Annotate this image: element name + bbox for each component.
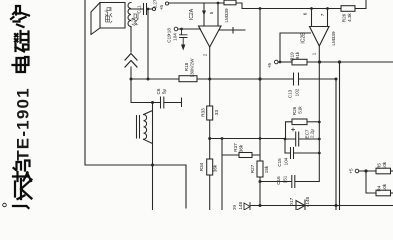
- svg-text:1: 1: [312, 52, 317, 55]
- op-amp IC2A: [199, 26, 222, 47]
- double vertical line left: [335, 79, 337, 210]
- wire +5 to R5: [359, 170, 376, 172]
- resistor R19: [292, 59, 307, 65]
- capacitor C6 5u: [161, 97, 182, 108]
- long vertical wire center: [152, 103, 154, 211]
- transformer winding: [144, 115, 147, 140]
- diode D9 (cut at edge): [244, 203, 250, 211]
- svg-text:36k: 36k: [239, 144, 244, 152]
- L2 wire to right edge: [307, 61, 393, 63]
- wire node row Y138: [210, 138, 285, 140]
- long vertical wire X260: [259, 9, 261, 162]
- op-amp IC2B: [310, 27, 330, 47]
- wire R37 leads: [222, 154, 260, 156]
- svg-text:10k: 10k: [382, 183, 387, 191]
- svg-text:R19: R19: [290, 52, 295, 61]
- terminal +18: [174, 27, 178, 31]
- svg-text:2.2μ: 2.2μ: [310, 129, 315, 138]
- wire row Y181 with C16: [260, 181, 319, 183]
- svg-text:+5: +5: [349, 168, 354, 174]
- svg-text:33: 33: [214, 110, 219, 116]
- svg-text:4148: 4148: [305, 196, 310, 207]
- svg-text:C16: C16: [276, 176, 281, 185]
- svg-text:4.3k: 4.3k: [347, 12, 352, 21]
- svg-text:5μ: 5μ: [162, 89, 167, 95]
- wire C11 branch vertical: [147, 9, 149, 79]
- svg-text:6: 6: [303, 12, 308, 15]
- resistor R25 4.3k: [341, 6, 355, 12]
- resistor R34: [207, 159, 213, 175]
- svg-text:4148: 4148: [238, 201, 243, 210]
- chevron break symbol: [125, 54, 137, 68]
- wire IC2A input right: [219, 28, 245, 34]
- wire node row Y139 to EC7: [285, 138, 319, 140]
- wire IC2A output to rail: [209, 47, 211, 79]
- wire chevron down to C6 corner: [131, 67, 160, 103]
- svg-text:R4: R4: [377, 185, 382, 191]
- pot 锅具: [91, 3, 125, 35]
- svg-text:R5: R5: [377, 163, 382, 169]
- label 线盘: [132, 13, 138, 26]
- svg-text:R37: R37: [233, 143, 238, 152]
- wire R34 to bottom: [209, 175, 211, 210]
- svg-text:R34: R34: [199, 162, 204, 171]
- capacitor EC7 2.2u: [296, 132, 299, 146]
- wire R27 to bottom rail: [259, 177, 261, 206]
- resistor R4: [376, 190, 391, 196]
- diode D17: [296, 200, 305, 211]
- pin4 wire with arrow: [203, 3, 205, 26]
- svg-text:C15: C15: [277, 158, 282, 167]
- svg-text:R26: R26: [342, 13, 347, 22]
- border frame line: [85, 0, 186, 208]
- char 天: [15, 179, 32, 199]
- small mark bottom-left corner: [3, 203, 7, 207]
- wire R34 branch: [209, 139, 211, 160]
- resistor R5: [376, 168, 391, 174]
- L2 wire +5 to R19: [278, 61, 292, 63]
- svg-text:5: 5: [209, 11, 214, 14]
- svg-text:51k: 51k: [298, 106, 303, 114]
- svg-text:C6: C6: [156, 88, 161, 94]
- svg-text:R33: R33: [201, 108, 206, 117]
- capacitor C13 102: [294, 73, 336, 85]
- svg-text:TE-1901: TE-1901: [14, 87, 33, 161]
- svg-text:91k: 91k: [295, 51, 300, 59]
- wire R26 left lead down: [286, 122, 293, 139]
- terminal circle for C11: [152, 7, 155, 10]
- label 锅具: [105, 8, 112, 24]
- resistor R33: [207, 106, 213, 120]
- terminal +5 bottom right: [355, 169, 359, 173]
- transformer leads: [144, 111, 153, 144]
- capacitor C19 104: [180, 29, 188, 45]
- node dot on frame line: [151, 164, 154, 167]
- top rail wire: [169, 3, 341, 9]
- transformer core: [137, 116, 140, 139]
- wire +18 to IC2A: [178, 28, 201, 30]
- svg-text:LM339: LM339: [224, 8, 229, 22]
- svg-text:7: 7: [320, 13, 325, 16]
- svg-text:R26: R26: [292, 106, 297, 115]
- node dot C11 line: [147, 78, 150, 81]
- node dot rail-chevron: [130, 78, 133, 81]
- capacitor C16 151: [292, 176, 295, 188]
- wire coil to chevron: [130, 27, 132, 53]
- double vertical line right: [339, 62, 341, 210]
- char 小 (partially cut): [13, 196, 29, 217]
- svg-text:36k: 36k: [213, 164, 218, 172]
- pin5 wire: [217, 3, 219, 26]
- resistor on top rail: [224, 0, 236, 5]
- node dot C6 wire: [151, 101, 154, 104]
- title 小天鹅 TE-1901 电磁炉 (rotated): [3, 6, 33, 217]
- svg-text:IC2A: IC2A: [189, 8, 195, 20]
- capacitor C15 104: [291, 148, 294, 159]
- resistor R26 51k: [292, 119, 307, 125]
- terminal +5 top: [165, 2, 168, 5]
- svg-text:2: 2: [203, 53, 208, 56]
- resistor R18: [179, 76, 197, 82]
- bottom rail Y205.5: [251, 205, 393, 207]
- wire IC2B output / feedback: [318, 46, 320, 182]
- wire rail to R33: [209, 79, 211, 106]
- svg-text:130K/2W: 130K/2W: [190, 58, 195, 78]
- resistor R27: [257, 161, 263, 177]
- svg-text:D9: D9: [232, 205, 237, 210]
- svg-text:C13: C13: [288, 89, 293, 98]
- svg-text:C19: C19: [167, 34, 172, 43]
- svg-text:15k: 15k: [264, 165, 269, 173]
- svg-text:IC2B: IC2B: [301, 32, 307, 44]
- svg-text:+5: +5: [267, 62, 272, 68]
- pin wires 6 7: [312, 9, 328, 27]
- wire R26 right lead: [307, 121, 319, 123]
- wire branch X222 down: [221, 139, 223, 211]
- ground arrow for C19: [181, 45, 185, 51]
- main rail wire Y79: [131, 78, 179, 80]
- resistor R37: [239, 153, 252, 158]
- rail wire R18 to C13: [197, 78, 293, 80]
- svg-text:R18: R18: [184, 62, 189, 71]
- wire IC2B minus input: [280, 33, 311, 62]
- svg-text:104: 104: [284, 157, 289, 165]
- char 电: [13, 57, 29, 72]
- char 炉: [11, 6, 29, 27]
- char 鹅: [13, 161, 31, 182]
- induction coil (线盘) bumps: [128, 3, 131, 27]
- svg-text:102: 102: [295, 88, 300, 96]
- wire to R4: [366, 171, 376, 193]
- svg-text:R27: R27: [250, 164, 255, 173]
- svg-text:LM339: LM339: [331, 31, 336, 45]
- svg-text:D17: D17: [289, 197, 294, 206]
- wire C15 branch: [285, 139, 319, 153]
- svg-text:10k: 10k: [382, 161, 387, 169]
- svg-text:104: 104: [173, 33, 178, 41]
- wire R33 to node: [209, 120, 211, 139]
- capacitor C11 0.27 plates: [130, 4, 152, 15]
- char 磁: [15, 31, 29, 52]
- svg-text:+5: +5: [159, 4, 164, 10]
- terminal +5 middle: [275, 60, 279, 64]
- svg-text:151: 151: [283, 175, 288, 183]
- svg-text:0.27: 0.27: [153, 0, 158, 8]
